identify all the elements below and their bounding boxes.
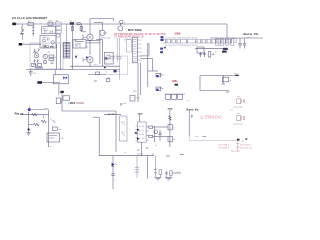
regulator U3 xyxy=(56,93,62,104)
svg-text:x xxxx: x xxxx xyxy=(239,141,245,143)
wire fb y140.5 xyxy=(220,140,238,142)
label under comparator xyxy=(48,146,52,148)
wire bottom L xyxy=(93,117,154,156)
svg-text:xx: xx xyxy=(124,152,126,154)
transistor Q1 xyxy=(34,53,38,57)
resistor R5 zigzag xyxy=(34,60,38,63)
svg-text:Boost_Vin: Boost_Vin xyxy=(187,108,199,111)
svg-text:xxx xxxx: xxx xxxx xyxy=(231,151,241,153)
wire boost riser x227 xyxy=(226,24,228,38)
label GND mid xyxy=(138,113,143,115)
svg-text:xx: xx xyxy=(56,21,58,23)
fuse F1 xyxy=(28,21,33,26)
svg-text:C4 BRESSURE RELIE 1B: C4 BRESSURE RELIE 1B xyxy=(114,36,144,39)
svg-text:xx: xx xyxy=(173,128,175,130)
svg-text:xR5x: xR5x xyxy=(172,80,178,83)
ground sym bottom1 xyxy=(154,177,161,180)
svg-text:xx: xx xyxy=(50,118,52,120)
resistor R1 xyxy=(77,23,80,25)
svg-text:xx xxxxx x: xx xxxxx x xyxy=(219,147,230,149)
resistor R12 vertical xyxy=(208,52,214,58)
node label vcc xyxy=(86,46,89,48)
varistor RV1 xyxy=(20,24,25,40)
svg-text:xxx xxxxx x: xxx xxxxx x xyxy=(240,145,252,147)
svg-text:x1: x1 xyxy=(54,57,56,59)
resistor R6 horizontal xyxy=(35,66,43,69)
resistor R23 box xyxy=(168,136,175,141)
svg-text:R10x: R10x xyxy=(159,74,163,76)
resistor R8 xyxy=(110,57,114,59)
resistor R22 box xyxy=(168,125,175,130)
svg-text:U EBSOC: U EBSOC xyxy=(200,115,222,120)
wire vertical x154.7 xyxy=(154,126,156,142)
wire secondary bus y39.5 xyxy=(163,39,232,41)
label Boost_Vin small xyxy=(187,108,199,111)
wire y114.7 mid xyxy=(104,114,121,116)
wire vertical x117.2 xyxy=(116,38,118,62)
svg-text:MCZ x0x: MCZ x0x xyxy=(44,45,55,48)
wire vertical x116 xyxy=(115,115,117,152)
PFC block outline xyxy=(30,43,63,69)
label faint near boost xyxy=(230,110,233,112)
connector CN2 terminal N xyxy=(19,43,41,46)
transformer T1 xyxy=(64,24,70,58)
note pink row 1 xyxy=(114,32,166,36)
wire vertical x189.2 xyxy=(189,111,192,136)
svg-text:xx xx: xx xx xyxy=(75,55,79,57)
diode D11 xyxy=(112,156,118,190)
resistor R9 xyxy=(117,57,121,59)
svg-text:xxx: xxx xyxy=(187,100,190,102)
transistor Q5 xyxy=(154,130,158,134)
label photo xyxy=(44,108,50,110)
wire vertical x99.9 xyxy=(99,30,101,65)
svg-text:C6: C6 xyxy=(140,60,142,62)
svg-text:xxx x: xxx x xyxy=(94,64,98,66)
svg-text:x1x: x1x xyxy=(61,138,64,140)
capacitor C10 vertical ticks xyxy=(159,130,162,141)
note red label mid xyxy=(172,80,178,83)
capacitor C6 mid xyxy=(130,91,139,101)
resistor R10 with blue mark xyxy=(156,73,164,77)
label feedback node xyxy=(195,136,207,138)
svg-text:8x: 8x xyxy=(142,126,144,128)
resistor R13 xyxy=(234,39,236,43)
wire vertical x140.7 xyxy=(140,63,142,95)
title text xyxy=(12,16,47,20)
wire vertical x138 down xyxy=(137,63,139,102)
capacitor C13 + resistor xyxy=(165,171,172,178)
label row above rails xyxy=(163,100,190,102)
svg-text:xx: xx xyxy=(118,71,120,73)
gate network Q3 xyxy=(82,35,87,40)
wire vertical x56.7 xyxy=(56,44,58,69)
optocoupler PC3 xyxy=(44,115,56,123)
wire vertical x139.4 xyxy=(138,115,140,122)
svg-text:x2x: x2x xyxy=(48,52,51,54)
label Rdy_on xyxy=(15,112,24,115)
thermistor TH2 dark xyxy=(37,81,60,84)
svg-text:xxxx: xxxx xyxy=(195,136,199,138)
resistor R5b ticks xyxy=(33,52,56,65)
resistor R18 xyxy=(52,127,61,131)
gate resistor R7 xyxy=(100,38,110,40)
svg-text:x_x: x_x xyxy=(177,171,180,173)
wire vertical x60.5 xyxy=(60,44,62,69)
resistor network RN1 xyxy=(49,55,54,60)
svg-text:xxx: xxx xyxy=(230,110,233,112)
svg-text:xxx: xxx xyxy=(137,98,140,100)
svg-text:D2 D3 D4 D5 D7 D8 D9: D2 D3 D4 D5 D7 D8 D9 DA DB DC DD DE xyxy=(165,37,198,40)
ground sym left xyxy=(26,131,30,135)
svg-text:xxx xxx: xxx xxx xyxy=(137,154,143,156)
resistor R11 with blue mark xyxy=(156,87,164,91)
label PGND dark xyxy=(180,154,184,156)
svg-text:C4: C4 xyxy=(140,52,142,54)
node chain vertical at x33 xyxy=(32,25,36,36)
jumper dark mark xyxy=(175,84,179,86)
svg-text:R11x: R11x xyxy=(159,88,163,90)
IC U1 SSC3S927 xyxy=(134,122,149,142)
svg-text:xx: xx xyxy=(175,100,177,102)
relay block K1 xyxy=(40,36,56,49)
electrolytic capacitor CE2 xyxy=(220,39,223,45)
mosfet Q4 low side xyxy=(87,57,93,67)
wire right mid y75 xyxy=(200,73,239,90)
label SGND dark xyxy=(166,155,170,157)
svg-text:x: x xyxy=(114,180,115,182)
wire vertical x102.4 xyxy=(96,39,102,66)
svg-text:xx: xx xyxy=(108,58,110,60)
svg-text:3x: 3x xyxy=(139,134,141,136)
label aux xyxy=(107,77,110,79)
resonant capacitor Cr xyxy=(94,23,107,36)
svg-text:C2: C2 xyxy=(140,44,142,46)
snubber box right xyxy=(197,47,204,53)
wire vertical x147.7 xyxy=(147,156,149,179)
pin labels CN3 xyxy=(140,40,142,62)
svg-text:xxx: xxx xyxy=(152,154,155,156)
note pink block left xyxy=(219,145,230,150)
note pink big xyxy=(200,115,222,120)
capacitor C3 left xyxy=(29,70,36,77)
comparator block U2 xyxy=(47,133,63,142)
wire rail y66.2 xyxy=(70,65,120,67)
svg-text:GND: GND xyxy=(138,113,143,115)
capacitor C2 bottom of PFC xyxy=(32,64,42,67)
resistor R17 zigzag xyxy=(41,120,47,122)
zener D12 + resistor xyxy=(154,156,162,178)
snubber block xyxy=(105,52,114,64)
wire cn3 pin nets xyxy=(140,56,152,71)
thermistor circles TH1 xyxy=(55,21,61,26)
capacitor C1 dark body xyxy=(70,21,75,25)
capacitor C9 xyxy=(243,37,250,48)
connector CN3 hatched xyxy=(133,37,140,63)
svg-text:xx xxxx xxxx: xx xxxx xxxx xyxy=(233,123,243,125)
wire boost to fb xyxy=(189,136,220,141)
wire secondary bus y43 xyxy=(163,42,232,44)
aux block outline xyxy=(106,56,128,74)
svg-text:xx_x: xx_x xyxy=(234,73,238,75)
wire vertical x169.9 xyxy=(169,110,171,147)
transformer T3 small xyxy=(233,113,245,125)
svg-text:MOV: MOV xyxy=(20,33,25,35)
svg-text:1x: 1x xyxy=(139,126,141,128)
resistor R3 vertical xyxy=(80,24,86,32)
transformer T2 small xyxy=(233,96,245,108)
label aux dark xyxy=(94,81,98,83)
terminal dark GND xyxy=(215,51,227,54)
svg-text:2x: 2x xyxy=(139,130,141,132)
wire y48.7 xyxy=(195,48,228,50)
resistor R19 xyxy=(149,126,153,128)
resistor R16 zigzag xyxy=(29,123,40,125)
filter block L3 xyxy=(55,30,61,44)
capacitor bank row boxes xyxy=(165,94,185,99)
capacitor C5 tall box xyxy=(126,40,131,52)
diode row labels xyxy=(165,37,198,47)
svg-text:xx xxx xxxx: xx xxx xxxx xyxy=(233,107,242,109)
junction dots blue xyxy=(75,55,98,67)
resistor R20 xyxy=(149,135,153,137)
transistor Q2b xyxy=(43,60,47,64)
svg-text:3399: 3399 xyxy=(175,31,181,35)
wire aux bottom y74.6 xyxy=(88,72,106,75)
svg-text:▪xx: ▪xx xyxy=(86,46,89,48)
resistor R14 xyxy=(221,75,231,84)
svg-text:xx: xx xyxy=(230,80,232,82)
wire vertical x48.6 xyxy=(48,110,50,147)
relay coil circle xyxy=(118,20,125,31)
wire to label xyxy=(172,171,181,173)
svg-text:x1x: x1x xyxy=(58,129,61,131)
resistor R2 vertical xyxy=(71,24,73,70)
IC pin texts xyxy=(139,126,144,140)
diode D1b blue xyxy=(160,47,166,53)
note pink block right xyxy=(231,145,252,153)
label Rly_on mid xyxy=(108,114,115,116)
label GND right column xyxy=(168,109,173,111)
svg-text:7x: 7x xyxy=(142,130,144,132)
ground sym bottom2 xyxy=(165,177,173,180)
label GND bottom xyxy=(137,145,157,151)
svg-text:Cx: Cx xyxy=(34,73,36,75)
wire top AC bus xyxy=(16,23,227,25)
LED D10 filled xyxy=(28,107,44,112)
svg-text:xx: xx xyxy=(156,145,158,147)
svg-text:x3x: x3x xyxy=(74,40,77,42)
wire rdy xyxy=(20,114,49,116)
transistor Q2 xyxy=(43,54,47,58)
capacitor C11 ticks xyxy=(111,174,115,182)
svg-text:BD1 x: BD1 x xyxy=(43,28,48,30)
capacitor C4 xyxy=(106,79,110,82)
svg-text:Boost_Vin: Boost_Vin xyxy=(244,32,259,36)
svg-text:MCZ 33GB: MCZ 33GB xyxy=(128,28,142,32)
block half-bridge driver xyxy=(73,40,86,49)
bottom labels xyxy=(137,154,155,156)
resistor R4 zigzag xyxy=(34,49,39,52)
svg-text:5x: 5x xyxy=(142,138,144,140)
svg-text:xxx: xxx xyxy=(237,96,240,98)
mosfet Q3 high side xyxy=(87,24,93,55)
filter capacitor CX1 xyxy=(48,21,53,26)
capacitor C8 xyxy=(238,38,242,49)
svg-text:C3: C3 xyxy=(140,48,142,50)
label dark right xyxy=(226,91,230,93)
gate network Q4 xyxy=(83,58,87,62)
resistor R15 zigzag xyxy=(32,114,38,116)
diode D1a blue xyxy=(161,36,164,41)
diode row D2-D9 xyxy=(166,40,232,44)
electrolytic capacitor CE1 xyxy=(215,38,218,45)
box right of regulator xyxy=(63,96,70,100)
capacitor C14 small xyxy=(121,103,126,106)
label MCZ 33GB second xyxy=(68,101,84,105)
label Boost_Vin top xyxy=(244,32,259,36)
svg-text:xx: xx xyxy=(169,100,171,102)
wire HB node xyxy=(86,41,100,43)
svg-text:xxx: xxx xyxy=(247,37,250,39)
capacitor C7 pair xyxy=(199,52,205,57)
bridge rectifier BD1 block xyxy=(42,27,57,34)
junction dot xyxy=(104,67,106,69)
label MCZ inside PFC xyxy=(44,45,55,48)
svg-text:xx: xx xyxy=(163,100,165,102)
filter block L2 xyxy=(55,26,61,30)
wire rly net y111 xyxy=(62,104,116,115)
svg-text:xx xx: xx xx xyxy=(48,146,52,148)
diode D1 dot xyxy=(114,70,120,73)
wire vertical x28.6 xyxy=(28,112,30,131)
wire boost bus y38 xyxy=(210,37,263,39)
label MCZ 33GB xyxy=(128,28,142,32)
wire IC to bus xyxy=(124,142,142,156)
electrolytic capacitor CE3 xyxy=(225,39,228,45)
svg-text:xxxx xxx xx: xxxx xxx xx xyxy=(240,147,252,149)
svg-text:R6x: R6x xyxy=(35,66,38,68)
svg-text:C2 C3 C4 C5 C7 C8 C9: C2 C3 C4 C5 C7 C8 C9 CA CB CC CD CE xyxy=(165,44,198,47)
svg-text:Dx: Dx xyxy=(115,164,117,166)
svg-text:C1: C1 xyxy=(140,40,142,42)
wire vertical x119.7 xyxy=(119,38,121,80)
resistor R21 zigzag vertical xyxy=(169,116,171,121)
note pink row 2 xyxy=(114,36,144,39)
svg-text:6x: 6x xyxy=(142,134,144,136)
electrolytic capacitor CE4 xyxy=(230,39,233,45)
capacitor C12 xyxy=(135,156,139,178)
svg-text:xx: xx xyxy=(173,139,175,141)
svg-text:4x: 4x xyxy=(139,138,141,140)
block aux label dark xyxy=(60,91,63,93)
svg-text:GND: GND xyxy=(168,109,173,111)
svg-text:[ MCZ 33GBx: [ MCZ 33GBx xyxy=(68,101,84,105)
note pink row top xyxy=(239,141,245,143)
bridge block BD2 xyxy=(53,70,68,95)
connector CN1 terminal L xyxy=(12,23,19,26)
note red part number xyxy=(175,31,181,35)
wire upper jog y18.5 xyxy=(90,19,114,24)
junction dark fb xyxy=(237,138,247,140)
dual optocoupler box xyxy=(120,116,128,141)
svg-text:9.5 0 LLC with SSC3S927: 9.5 0 LLC with SSC3S927 xyxy=(12,16,47,20)
wire faint under notes xyxy=(124,39,134,42)
svg-text:xx: xx xyxy=(215,51,217,53)
svg-text:x1x: x1x xyxy=(107,77,110,79)
wire L-shape secondary xyxy=(148,43,158,87)
svg-text:xxx: xxx xyxy=(237,113,240,115)
transistor Q6 vertical xyxy=(236,141,239,152)
wire bottom rail y69.5 xyxy=(26,69,120,71)
wire ic to column xyxy=(153,127,168,136)
